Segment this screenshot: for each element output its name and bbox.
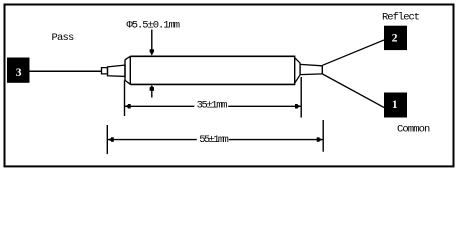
taper cone left: [108, 65, 126, 76]
label Reflect: [382, 11, 420, 23]
label Pass: [52, 32, 75, 44]
label Common: [397, 124, 430, 136]
cylinder body: [130, 56, 294, 86]
fiber to port 2 (reflect): [323, 40, 385, 65]
extension line 55mm left: [106, 125, 108, 154]
neck taper right: [300, 64, 322, 74]
cap seam line: [129, 56, 131, 84]
dimension line 35mm with arrows: [125, 104, 301, 109]
svg-text:Reflect: Reflect: [382, 11, 420, 23]
svg-text:Φ5.5±0.1mm: Φ5.5±0.1mm: [127, 19, 180, 31]
dimension text 55+-1mm: [199, 134, 228, 146]
extension line 55mm right: [322, 120, 324, 152]
border frame: [5, 5, 454, 167]
fiber to port 1 (common): [323, 74, 385, 108]
svg-text:1: 1: [392, 99, 398, 111]
port box 2: [384, 26, 407, 50]
svg-text:35±1mm: 35±1mm: [197, 100, 228, 112]
svg-text:2: 2: [392, 33, 398, 45]
svg-text:3: 3: [16, 67, 22, 79]
svg-text:Pass: Pass: [52, 32, 75, 44]
diameter arrow bottom (pointing up): [150, 85, 154, 97]
extension line 35mm left: [124, 80, 126, 116]
extension line 35mm right: [300, 77, 302, 118]
port box 3: [7, 58, 30, 83]
dimension label diameter 5.5+-0.1mm: [127, 19, 180, 31]
end cap face left: [124, 60, 126, 81]
svg-text:Common: Common: [397, 124, 430, 136]
dimension line 55mm with arrows: [107, 137, 323, 142]
left chamfers: [125, 56, 130, 84]
svg-text:55±1mm: 55±1mm: [199, 134, 228, 146]
small face right: [299, 63, 301, 75]
right chamfers: [295, 58, 300, 83]
boot rectangle: [102, 68, 108, 74]
dimension text 35+-1mm: [197, 100, 228, 112]
port box 1: [384, 93, 407, 118]
diameter arrow top (pointing down): [150, 30, 154, 56]
wire pass fiber (port 3 to boot): [30, 70, 102, 72]
